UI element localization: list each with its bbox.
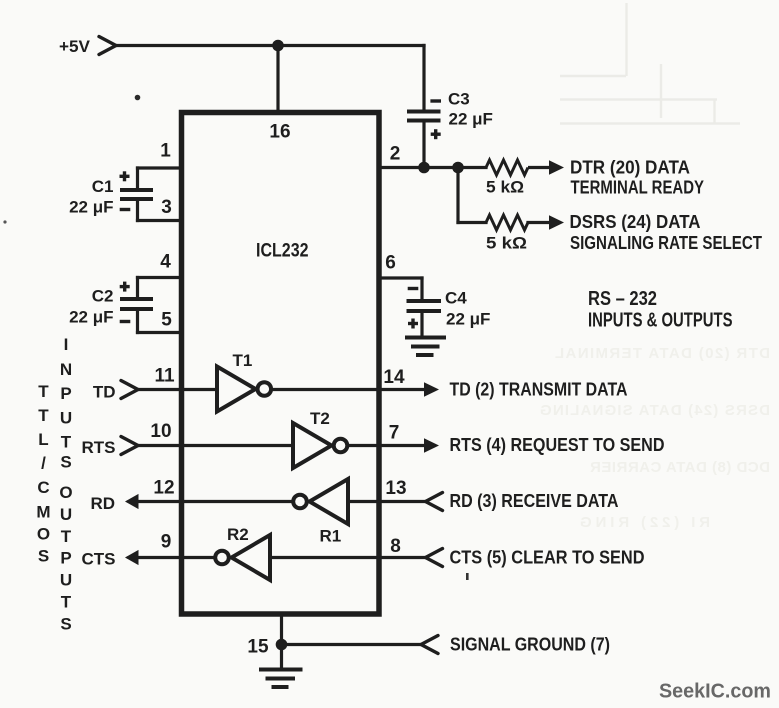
svg-text:3: 3 <box>161 197 172 218</box>
wire pin 8 to R2 input <box>270 556 426 559</box>
RTS(4) output arrow <box>424 438 439 452</box>
svg-text:C4: C4 <box>445 289 467 308</box>
wire +5V rail <box>116 44 424 47</box>
wire pin 1 stub <box>138 166 182 169</box>
svg-text:SIGNAL GROUND (7): SIGNAL GROUND (7) <box>450 635 610 655</box>
svg-text:TD: TD <box>93 383 116 402</box>
svg-text:2: 2 <box>390 144 401 165</box>
svg-text:DTR (20) DATA: DTR (20) DATA <box>570 158 690 178</box>
svg-text:8: 8 <box>390 536 401 557</box>
svg-text:DTR (20) DATA TERMINAL: DTR (20) DATA TERMINAL <box>555 345 770 362</box>
svg-text:L: L <box>38 430 48 449</box>
svg-text:C3: C3 <box>448 90 470 109</box>
wire T1 output to pin 14 arrow <box>273 388 425 391</box>
svg-text:T: T <box>38 406 49 425</box>
svg-text:S: S <box>38 547 49 566</box>
svg-text:4: 4 <box>160 252 171 273</box>
wire RD output from R1 <box>137 500 291 503</box>
svg-text:T: T <box>38 382 49 401</box>
INPUTS column label <box>60 335 72 472</box>
stray apostrophe mark <box>466 573 469 580</box>
wire C3 bottom to pin2 rail <box>422 122 425 168</box>
svg-text:N: N <box>60 360 72 379</box>
svg-text:P: P <box>60 384 71 403</box>
svg-text:DSRS (24) DATA SIGNALING: DSRS (24) DATA SIGNALING <box>540 402 770 419</box>
TTL/CMOS column label <box>36 382 50 566</box>
svg-text:P: P <box>60 549 71 568</box>
C3 minus polarity mark <box>430 99 441 102</box>
wire pin 5 stub <box>138 331 182 334</box>
svg-text:+5V: +5V <box>59 37 91 56</box>
C1 plus polarity mark <box>120 171 130 181</box>
svg-text:5 kΩ: 5 kΩ <box>486 178 524 197</box>
svg-text:ICL232: ICL232 <box>256 241 309 262</box>
capacitor C4 <box>407 301 442 311</box>
ghost bleed-through text rows <box>540 345 770 531</box>
svg-text:S: S <box>60 614 71 633</box>
svg-text:T: T <box>61 433 72 452</box>
svg-text:5: 5 <box>161 310 172 331</box>
svg-text:9: 9 <box>161 532 172 553</box>
wire resistor to DTR arrow <box>528 166 550 169</box>
wire pin 2 output rail <box>379 166 486 169</box>
svg-text:RS – 232: RS – 232 <box>588 288 657 310</box>
wire signal ground row <box>282 643 422 646</box>
inverter T1 <box>217 367 256 412</box>
C1 minus polarity mark <box>120 208 131 211</box>
svg-text:R1: R1 <box>320 527 342 546</box>
svg-text:6: 6 <box>385 253 396 274</box>
svg-text:22 μF: 22 μF <box>69 198 113 217</box>
wire CTS output from R2 <box>137 556 214 559</box>
svg-text:13: 13 <box>385 478 406 499</box>
RD(3) input source arrow <box>426 493 443 511</box>
svg-text:SIGNALING RATE SELECT: SIGNALING RATE SELECT <box>570 233 762 253</box>
svg-text:7: 7 <box>389 423 400 444</box>
svg-text:RTS: RTS <box>82 438 116 457</box>
node junction pin2/C3 <box>418 162 430 174</box>
svg-text:/: / <box>41 454 46 473</box>
svg-text:I: I <box>64 335 69 354</box>
svg-text:INPUTS & OUTPUTS: INPUTS & OUTPUTS <box>588 310 733 332</box>
signal ground source arrow <box>421 636 438 654</box>
wire C4 bottom lead <box>420 311 423 338</box>
C4 minus polarity mark <box>408 287 419 290</box>
wire T2 output to pin 7 arrow <box>348 444 424 447</box>
svg-text:T1: T1 <box>233 351 253 370</box>
inverter T2 <box>293 423 332 468</box>
OUTPUTS column label <box>59 483 72 633</box>
svg-text:CTS: CTS <box>82 550 116 569</box>
node junction pin15/signal ground <box>276 639 288 651</box>
svg-text:TD (2) TRANSMIT DATA: TD (2) TRANSMIT DATA <box>450 380 628 400</box>
stray scan tick left edge <box>3 220 6 223</box>
svg-text:O: O <box>37 525 50 544</box>
+5V source arrow <box>99 37 116 55</box>
wire pin 3 stub <box>138 219 182 222</box>
svg-text:M: M <box>36 503 50 522</box>
svg-text:CTS (5) CLEAR TO SEND: CTS (5) CLEAR TO SEND <box>450 548 645 568</box>
svg-text:22 μF: 22 μF <box>449 110 493 129</box>
inverter R1 <box>310 479 349 524</box>
svg-text:16: 16 <box>269 122 290 143</box>
RTS input source arrow <box>121 437 138 455</box>
capacitor C1 <box>120 190 153 199</box>
svg-text:DSRS (24) DATA: DSRS (24) DATA <box>570 212 701 232</box>
svg-text:22 μF: 22 μF <box>446 310 490 329</box>
C4 plus polarity mark <box>408 319 418 329</box>
svg-text:5 kΩ: 5 kΩ <box>486 234 527 253</box>
svg-text:U: U <box>60 409 72 428</box>
capacitor C2 <box>120 299 153 309</box>
svg-text:TERMINAL READY: TERMINAL READY <box>571 178 705 198</box>
svg-text:15: 15 <box>247 637 269 658</box>
CTS output arrow <box>125 550 139 565</box>
svg-text:T: T <box>61 527 72 546</box>
svg-text:14: 14 <box>383 367 405 388</box>
svg-text:C2: C2 <box>92 287 114 306</box>
svg-text:DCD (8) DATA CARRIER: DCD (8) DATA CARRIER <box>590 459 770 476</box>
stray scan dot <box>135 95 141 101</box>
wire C4 top lead <box>420 278 423 301</box>
TD(2) output arrow <box>424 382 439 396</box>
wire pin 13 to R1 input <box>348 500 426 503</box>
svg-text:O: O <box>59 483 72 502</box>
wire pin16 drop from +5V rail <box>276 46 279 111</box>
inverter R2 <box>232 535 271 580</box>
wire RTS input to T2 <box>138 444 293 447</box>
svg-text:RI (22) RING: RI (22) RING <box>580 514 710 531</box>
svg-text:10: 10 <box>150 421 171 442</box>
wire C1 top lead <box>136 168 139 190</box>
wire pin 15 drop <box>280 614 283 667</box>
svg-text:22 μF: 22 μF <box>69 308 113 327</box>
wire C2 bottom lead <box>136 309 139 333</box>
svg-text:RD: RD <box>90 494 115 513</box>
svg-text:C1: C1 <box>92 177 114 196</box>
C2 plus polarity mark <box>120 282 130 292</box>
ground below pin 15 <box>259 670 303 688</box>
wire +5V to C3 top <box>422 46 425 111</box>
capacitor C3 <box>407 112 441 121</box>
svg-text:RTS (4) REQUEST TO SEND: RTS (4) REQUEST TO SEND <box>450 435 665 455</box>
svg-text:R2: R2 <box>227 525 249 544</box>
wire C2 top lead <box>136 278 139 300</box>
wire DSRS row <box>458 221 486 224</box>
wire pin 4 stub <box>138 276 182 279</box>
RD output arrow <box>125 494 139 509</box>
svg-text:T2: T2 <box>310 409 330 428</box>
svg-text:12: 12 <box>153 478 174 499</box>
C2 minus polarity mark <box>120 320 131 323</box>
DTR output arrow <box>549 160 564 174</box>
svg-text:C: C <box>37 478 49 497</box>
DSRS output arrow <box>549 215 564 229</box>
resistor R 5k (DSRS pullup) <box>486 215 528 230</box>
node junction +5V/pin16 <box>272 40 284 52</box>
wire pin 6 stub <box>379 276 422 279</box>
C3 plus polarity mark <box>431 129 441 139</box>
svg-text:RD (3) RECEIVE DATA: RD (3) RECEIVE DATA <box>450 491 619 511</box>
node junction pin2/DSRS branch <box>452 162 464 174</box>
svg-text:S: S <box>60 453 71 472</box>
op-amp / IC body ICL232 U1 <box>182 113 380 615</box>
svg-text:1: 1 <box>160 141 171 162</box>
TD input source arrow <box>121 381 138 399</box>
CTS(5) input source arrow <box>426 549 443 567</box>
svg-text:U: U <box>60 571 72 590</box>
wire DSRS branch drop <box>456 168 459 223</box>
resistor R 5k (DTR pullup) <box>486 160 528 175</box>
svg-text:11: 11 <box>154 366 175 387</box>
wire C1 bottom lead <box>136 199 139 221</box>
svg-text:U: U <box>60 505 72 524</box>
svg-text:T: T <box>61 593 72 612</box>
wire TD input to T1 <box>138 388 217 391</box>
ghost bleed-through lines (page show-through, decorative-but-visible) <box>560 3 740 124</box>
svg-text:SeekIC.com: SeekIC.com <box>659 680 771 703</box>
ground below C4 <box>405 338 446 356</box>
